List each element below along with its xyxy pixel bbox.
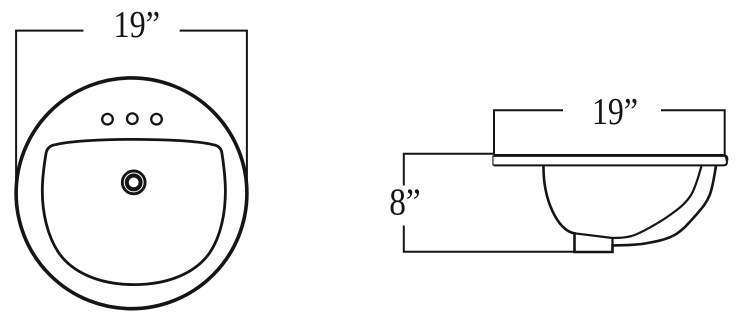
svg-text:19”: 19”	[114, 4, 161, 46]
svg-text:19”: 19”	[592, 91, 638, 133]
svg-text:8”: 8”	[389, 182, 421, 224]
